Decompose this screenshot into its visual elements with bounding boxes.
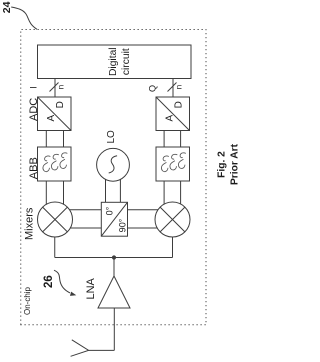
dashed on-chip boundary (21, 30, 206, 325)
wire antenna to LNA (113, 308, 115, 350)
wire LNA to junction (113, 258, 115, 277)
wire pair LO to phase shifter (106, 172, 121, 202)
wire RF split vertical (55, 257, 173, 259)
ABB filter Q (156, 147, 190, 181)
svg-text:A: A (46, 115, 57, 122)
svg-text:Digital: Digital (108, 47, 119, 76)
svg-text:A: A (165, 115, 176, 122)
bus slash Q (168, 83, 177, 92)
wire pair mixer Q to ABB Q (164, 181, 181, 212)
wire pair ABB I to ADC I (46, 131, 63, 148)
svg-text:26: 26 (43, 275, 55, 288)
wire pair ABB Q to ADC Q (164, 131, 181, 148)
arrow leader for 26 (54, 270, 76, 296)
svg-text:n: n (57, 85, 66, 89)
wire ADC Q to digital circuit (172, 79, 174, 98)
svg-text:n: n (175, 85, 184, 89)
svg-text:D: D (173, 101, 184, 108)
mixer I (38, 202, 73, 237)
svg-text:ADC: ADC (28, 98, 40, 121)
svg-text:LO: LO (106, 130, 117, 144)
leader line for 24 (11, 7, 37, 29)
bus slash I (50, 83, 59, 92)
antenna (71, 340, 115, 357)
ADC Q (156, 97, 190, 131)
svg-text:ABB: ABB (28, 157, 40, 179)
svg-text:0°: 0° (105, 206, 115, 215)
svg-text:LNA: LNA (85, 277, 97, 299)
svg-text:Prior Art: Prior Art (230, 143, 240, 185)
svg-text:On-chip: On-chip (23, 286, 32, 315)
node junction dot (112, 255, 116, 259)
LNA amplifier (98, 276, 130, 308)
wire RF to mixer Q (172, 232, 174, 258)
wire pair mixer I to phase shifter (60, 210, 101, 228)
svg-text:I: I (29, 86, 39, 89)
svg-text:Fig. 2: Fig. 2 (216, 151, 227, 178)
mixer Q (155, 202, 190, 237)
svg-text:Mixers: Mixers (24, 207, 36, 240)
digital circuit block (38, 45, 192, 79)
ADC I (38, 97, 72, 131)
svg-text:Q: Q (148, 85, 158, 92)
ABB filter I (38, 147, 72, 181)
local oscillator LO (97, 148, 130, 181)
phase shifter 0/90 (101, 202, 127, 236)
svg-text:D: D (55, 101, 66, 108)
wire pair mixer I to ABB I (46, 181, 63, 212)
svg-text:90°: 90° (118, 218, 128, 232)
wire RF to mixer I (54, 232, 56, 258)
wire ADC I to digital circuit (54, 79, 56, 98)
svg-text:circuit: circuit (121, 48, 132, 75)
wire pair phase shifter to mixer Q (128, 210, 169, 228)
